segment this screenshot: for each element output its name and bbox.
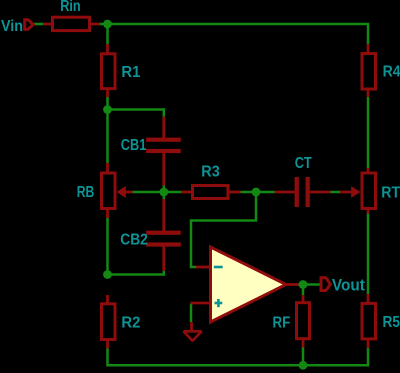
svg-text:Vout: Vout xyxy=(332,275,365,294)
svg-text:CB2: CB2 xyxy=(120,231,148,248)
svg-text:R2: R2 xyxy=(121,314,140,331)
svg-text:R1: R1 xyxy=(121,64,140,81)
svg-text:RB: RB xyxy=(77,184,95,201)
svg-text:RT: RT xyxy=(381,185,400,202)
svg-text:R4: R4 xyxy=(383,63,400,80)
svg-text:Vin: Vin xyxy=(1,18,23,35)
svg-text:R3: R3 xyxy=(201,164,220,181)
svg-text:Rin: Rin xyxy=(60,0,80,15)
svg-text:R5: R5 xyxy=(383,314,400,331)
svg-text:CB1: CB1 xyxy=(121,137,147,154)
svg-text:CT: CT xyxy=(295,155,312,172)
svg-text:RF: RF xyxy=(273,315,291,332)
